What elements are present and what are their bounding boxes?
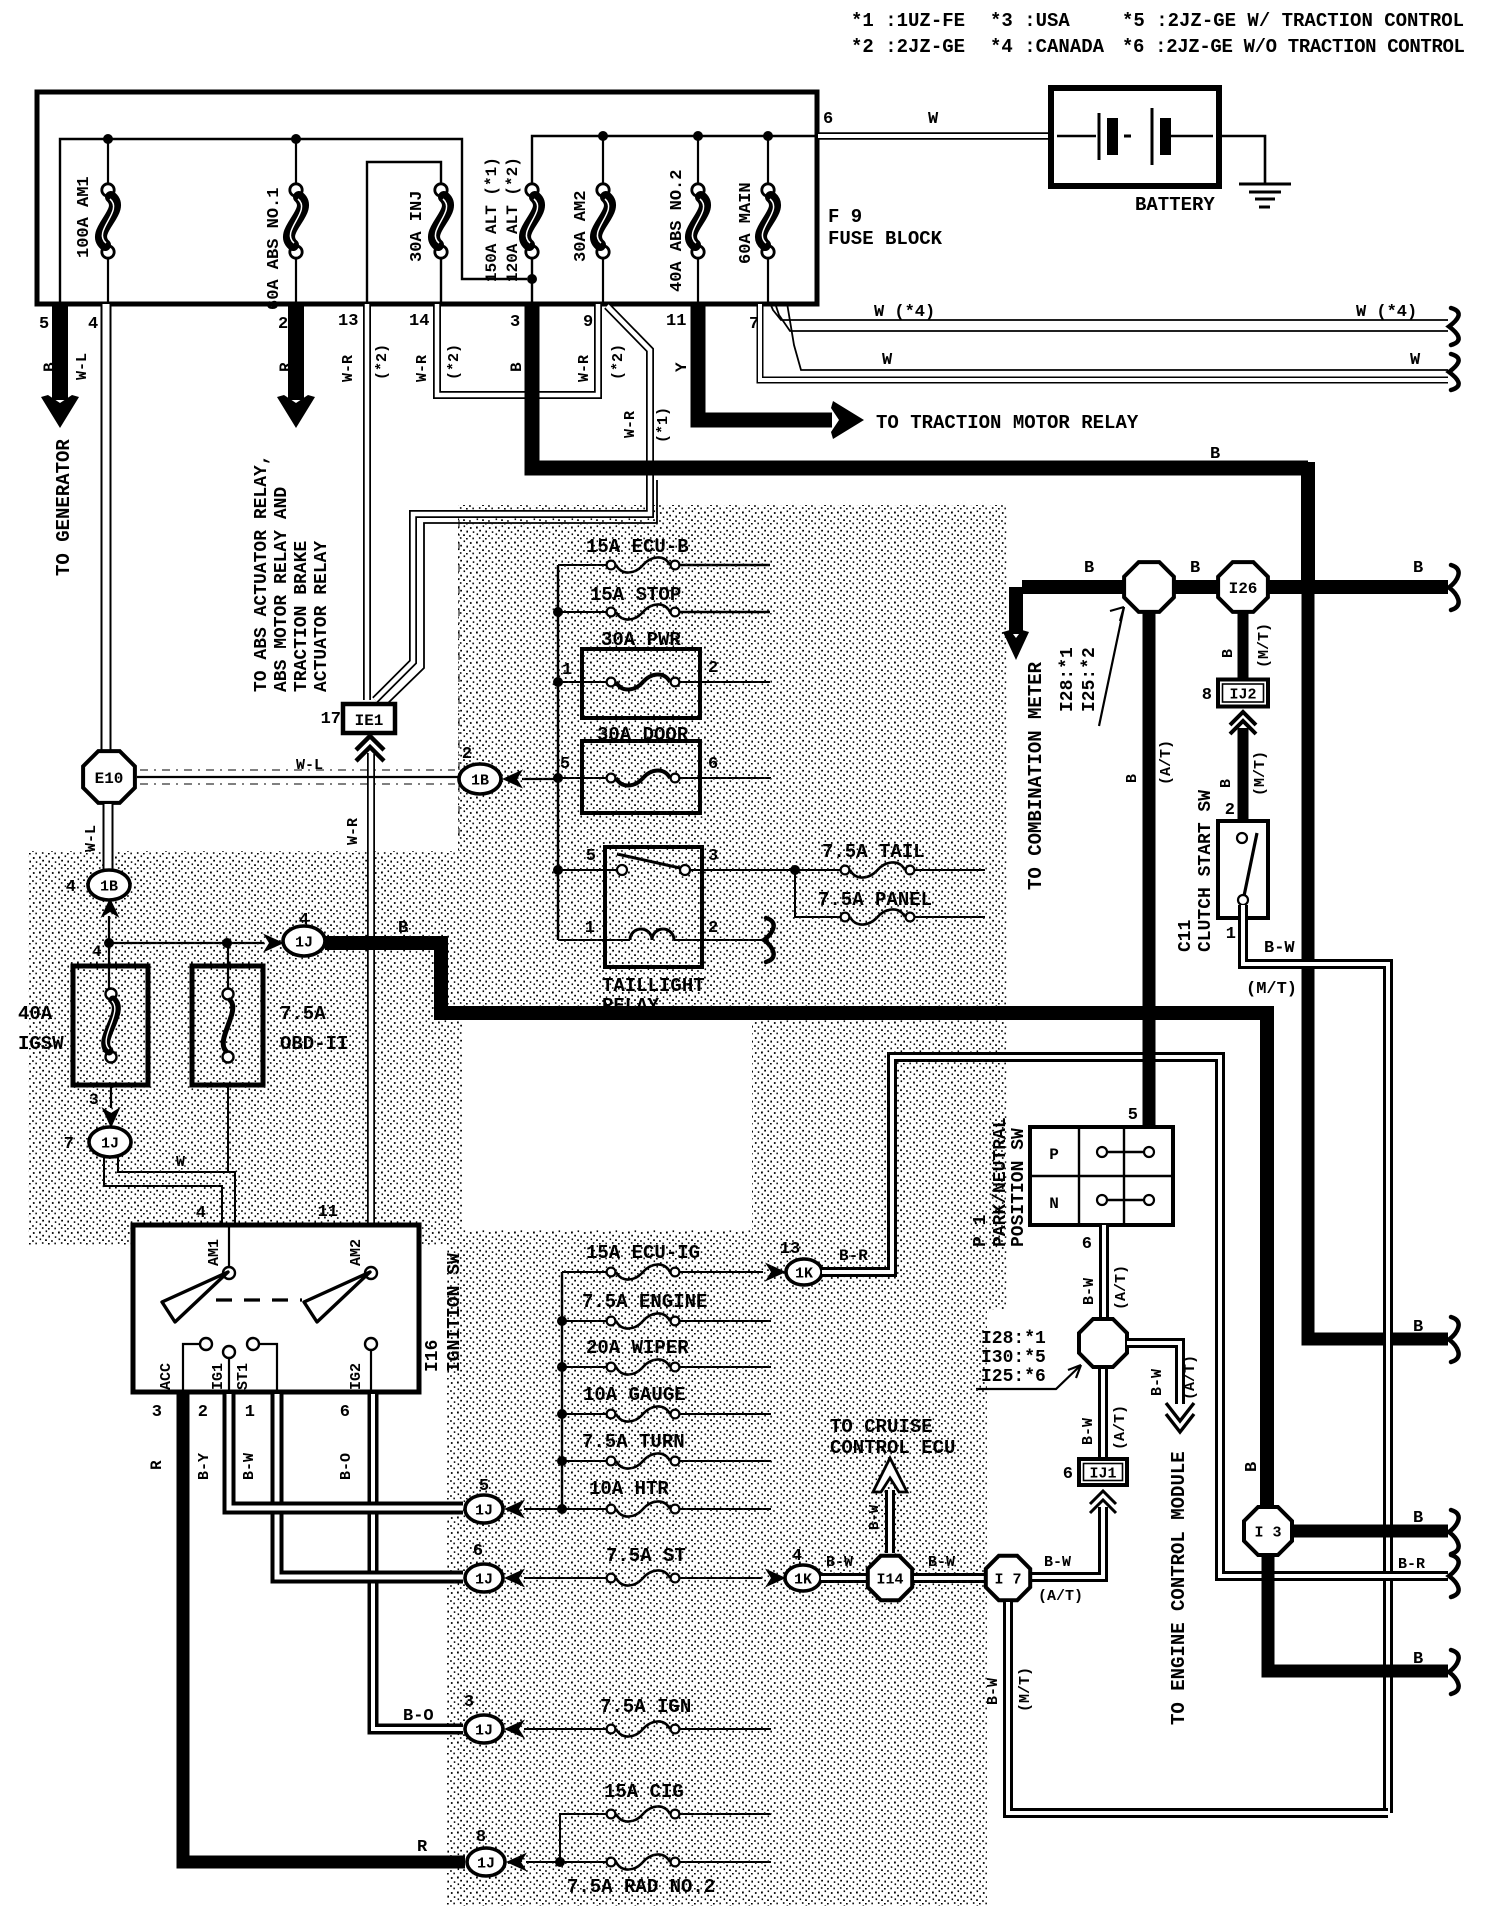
- svg-text:5: 5: [479, 1477, 489, 1496]
- svg-text:CONTROL ECU: CONTROL ECU: [830, 1437, 955, 1459]
- svg-text:I 3: I 3: [1254, 1524, 1281, 1541]
- svg-text:6: 6: [823, 110, 833, 129]
- svg-text:B-O: B-O: [338, 1453, 355, 1480]
- wire B-W A/T from octagon right to down arrow: [1127, 1343, 1180, 1404]
- svg-text:B: B: [41, 362, 59, 372]
- svg-text:POSITION SW: POSITION SW: [1009, 1128, 1029, 1247]
- octagon junction I28/I30/I25: [1079, 1319, 1127, 1367]
- svg-text:(*1): (*1): [655, 407, 672, 443]
- svg-text:CLUTCH START SW: CLUTCH START SW: [1196, 790, 1216, 952]
- svg-text:B-W: B-W: [1044, 1554, 1071, 1571]
- thick wire B below I3 to right edge: [1268, 1557, 1448, 1671]
- svg-text:10A HTR: 10A HTR: [589, 1478, 669, 1500]
- svg-text:W-R: W-R: [345, 818, 362, 845]
- fuse 7.5A OBD-II box: [227, 943, 229, 994]
- svg-text:TO ABS ACTUATOR RELAY,: TO ABS ACTUATOR RELAY,: [252, 454, 272, 692]
- svg-text:(M/T): (M/T): [1017, 1667, 1034, 1712]
- svg-text:I 7: I 7: [994, 1571, 1021, 1588]
- stipple region (IGSW / OBD fuses): [28, 851, 462, 1245]
- svg-text:4: 4: [92, 943, 102, 961]
- svg-text:8: 8: [1202, 686, 1212, 705]
- svg-text:3: 3: [708, 847, 718, 866]
- svg-text:15A ECU-B: 15A ECU-B: [586, 536, 689, 558]
- svg-text:W: W: [176, 1154, 185, 1171]
- pin 3 thick wire B down and right: [532, 304, 1308, 468]
- bus wire left segment: [60, 139, 527, 302]
- svg-text:IJ1: IJ1: [1089, 1466, 1116, 1483]
- svg-text:1: 1: [562, 661, 572, 680]
- wire W-R from IE1 down to ignition switch AM2: [367, 753, 375, 1224]
- fuse 60A MAIN: [767, 136, 769, 186]
- svg-text:(M/T): (M/T): [1256, 623, 1273, 668]
- svg-text:17: 17: [321, 710, 341, 729]
- wire B-W from ST1 pin1 to 1J pin 6: [277, 1394, 463, 1577]
- svg-text:IG1: IG1: [210, 1363, 227, 1390]
- svg-text:RELAY: RELAY: [602, 995, 660, 1017]
- svg-text:3: 3: [152, 1403, 162, 1422]
- svg-text:6: 6: [473, 1542, 483, 1561]
- svg-text:1J: 1J: [295, 934, 313, 951]
- svg-text:E10: E10: [95, 770, 124, 788]
- svg-text:(A/T): (A/T): [1112, 1405, 1129, 1450]
- svg-text:W-R: W-R: [622, 411, 639, 438]
- wire B-W from I7 up into IJ1: [1032, 1507, 1103, 1577]
- svg-text:1K: 1K: [794, 1571, 812, 1588]
- svg-text:W-L: W-L: [74, 353, 91, 380]
- svg-text:W (*4): W (*4): [874, 303, 935, 322]
- svg-text:60A ABS NO.1: 60A ABS NO.1: [265, 188, 284, 310]
- svg-text:6: 6: [1082, 1235, 1092, 1254]
- svg-text:7.5A: 7.5A: [280, 1003, 326, 1025]
- svg-text:2: 2: [708, 659, 718, 678]
- svg-text:3: 3: [464, 1693, 474, 1712]
- svg-text:FUSE BLOCK: FUSE BLOCK: [828, 228, 943, 250]
- wire W (*4) upper pair to right edge: [770, 303, 1448, 320]
- svg-text:W-R: W-R: [576, 355, 593, 382]
- octagon I14: [868, 1556, 912, 1600]
- svg-text:5: 5: [1128, 1106, 1138, 1125]
- svg-text:R: R: [277, 362, 295, 372]
- svg-text:4: 4: [88, 315, 98, 334]
- svg-text:13: 13: [338, 312, 358, 331]
- P row contact: [1097, 1147, 1107, 1157]
- wiper arm AM1: [162, 1272, 228, 1322]
- wire B-W 1K to I14: [821, 1573, 868, 1583]
- svg-text:B: B: [508, 362, 526, 372]
- battery symbol: [1057, 135, 1096, 138]
- svg-text:IGNITION SW: IGNITION SW: [445, 1253, 465, 1372]
- wire W fuse block to battery: [818, 132, 1051, 140]
- svg-text:1: 1: [245, 1403, 255, 1422]
- stipple region (ECU-B fuse group): [458, 505, 1008, 1012]
- svg-text:BATTERY: BATTERY: [1135, 194, 1215, 216]
- wire B-Y from IG1 pin2 to 1J pin 5: [229, 1394, 463, 1508]
- svg-text:ST1: ST1: [235, 1363, 252, 1390]
- svg-text:(A/T): (A/T): [1113, 1265, 1130, 1310]
- svg-text:7.5A TURN: 7.5A TURN: [582, 1431, 685, 1453]
- wire below OBD fuse: [227, 1085, 229, 1172]
- wire to 1J pin 4: [104, 938, 114, 948]
- svg-text:R: R: [417, 1838, 428, 1857]
- octagon I7: [986, 1556, 1030, 1600]
- brace wire ends W: [1449, 308, 1459, 345]
- svg-text:B-W: B-W: [928, 1554, 955, 1571]
- svg-text:1J: 1J: [475, 1722, 493, 1739]
- svg-text:B: B: [1084, 559, 1094, 578]
- svg-text:AM1: AM1: [206, 1239, 223, 1266]
- svg-text:TRACTION BRAKE: TRACTION BRAKE: [292, 541, 312, 692]
- svg-text:W: W: [1410, 351, 1421, 370]
- svg-text:IG2: IG2: [348, 1363, 365, 1390]
- svg-text:W-R: W-R: [340, 355, 357, 382]
- svg-text:1J: 1J: [101, 1135, 119, 1152]
- svg-text:TO TRACTION MOTOR RELAY: TO TRACTION MOTOR RELAY: [876, 412, 1139, 434]
- svg-text:4: 4: [196, 1204, 206, 1223]
- battery box: [1051, 88, 1219, 186]
- pin 11 thick wire Y to traction relay arrow: [698, 304, 832, 420]
- thick wire B from 1J to lower-right: [325, 943, 1267, 1507]
- svg-text:P: P: [1049, 1146, 1059, 1164]
- wire B-R from 1K up and over to right edge: [822, 1057, 1448, 1576]
- svg-text:*4 :CANADA: *4 :CANADA: [990, 36, 1105, 58]
- svg-text:4: 4: [66, 878, 76, 897]
- svg-text:ABS MOTOR RELAY AND: ABS MOTOR RELAY AND: [272, 487, 292, 692]
- fuse block F9 outline: [37, 92, 817, 304]
- svg-text:B: B: [1413, 1318, 1423, 1337]
- svg-text:(*2): (*2): [374, 344, 391, 380]
- svg-text:R: R: [148, 1460, 166, 1470]
- svg-text:5: 5: [586, 847, 596, 866]
- svg-text:B: B: [1190, 559, 1200, 578]
- svg-text:6: 6: [340, 1403, 350, 1422]
- svg-text:B: B: [1218, 779, 1235, 788]
- svg-text:I28:*1: I28:*1: [981, 1329, 1046, 1349]
- svg-text:*5 :2JZ-GE W/ TRACTION CONTROL: *5 :2JZ-GE W/ TRACTION CONTROL: [1122, 10, 1464, 32]
- svg-text:60A MAIN: 60A MAIN: [737, 182, 756, 264]
- svg-text:B: B: [1413, 1650, 1423, 1669]
- fuse 30A INJ loop: [367, 162, 441, 302]
- svg-text:30A AM2: 30A AM2: [572, 191, 591, 262]
- svg-text:1B: 1B: [471, 772, 489, 789]
- taillight relay box: [605, 847, 702, 967]
- fuse 30A AM2: [602, 136, 604, 186]
- octagon I3: [1244, 1507, 1292, 1555]
- svg-text:W-L: W-L: [83, 825, 100, 852]
- thick wire B right segment to combination meter corner: [1301, 462, 1315, 587]
- svg-text:AM2: AM2: [348, 1239, 365, 1266]
- svg-text:*3 :USA: *3 :USA: [990, 10, 1070, 32]
- svg-text:PARK/NEUTRAL: PARK/NEUTRAL: [991, 1117, 1011, 1247]
- wire W from 1J7 to ignition switch AM1: [104, 1157, 222, 1226]
- svg-text:B-Y: B-Y: [196, 1453, 213, 1480]
- svg-text:F 9: F 9: [828, 206, 862, 228]
- ground symbol: [1239, 183, 1291, 186]
- svg-text:*1 :1UZ-FE: *1 :1UZ-FE: [851, 10, 965, 32]
- ignition switch I16 box: [133, 1225, 419, 1392]
- svg-text:*6 :2JZ-GE W/O TRACTION CONTRO: *6 :2JZ-GE W/O TRACTION CONTROL: [1122, 36, 1465, 58]
- svg-text:1J: 1J: [477, 1855, 495, 1872]
- stipple region (lower fuse group): [447, 1230, 987, 1906]
- svg-text:W: W: [882, 351, 893, 370]
- svg-text:I26: I26: [1229, 580, 1258, 598]
- thick wire B from I3 to right edge: [1294, 1525, 1448, 1538]
- svg-text:I25:*6: I25:*6: [981, 1367, 1046, 1387]
- svg-text:TO ENGINE CONTROL MODULE: TO ENGINE CONTROL MODULE: [1168, 1451, 1190, 1725]
- wire B M/T from IJ2 to clutch switch: [1238, 728, 1249, 821]
- svg-text:1B: 1B: [100, 878, 118, 895]
- svg-text:W (*4): W (*4): [1356, 303, 1417, 322]
- svg-text:OBD-II: OBD-II: [280, 1033, 348, 1055]
- svg-text:(A/T): (A/T): [1038, 1588, 1083, 1605]
- octagon junction I28/I25: [1124, 562, 1174, 612]
- svg-text:15A STOP: 15A STOP: [590, 584, 681, 606]
- svg-text:TO GENERATOR: TO GENERATOR: [53, 439, 75, 576]
- fuse 40A IGSW box: [73, 966, 148, 1085]
- svg-text:W-R: W-R: [414, 355, 431, 382]
- svg-text:2: 2: [278, 315, 288, 334]
- svg-text:B-R: B-R: [1398, 1556, 1425, 1573]
- svg-text:TO CRUISE: TO CRUISE: [830, 1416, 933, 1438]
- svg-text:B: B: [1210, 445, 1220, 464]
- svg-text:B: B: [1413, 1509, 1423, 1528]
- svg-text:30A INJ: 30A INJ: [408, 191, 427, 262]
- wire W-R (*1) from pin 9 to IE1: [375, 306, 650, 700]
- octagon I26: [1218, 562, 1268, 612]
- svg-text:IGSW: IGSW: [18, 1033, 64, 1055]
- pin 13 wire W-R pair down to IE1: [363, 304, 371, 700]
- svg-text:B: B: [398, 919, 408, 938]
- svg-text:B-W: B-W: [1081, 1278, 1098, 1305]
- svg-text:B-W: B-W: [826, 1554, 853, 1571]
- svg-text:B-R: B-R: [839, 1247, 868, 1265]
- lower fuse bus: [561, 1272, 563, 1509]
- svg-text:120A ALT (*2): 120A ALT (*2): [504, 157, 522, 282]
- svg-text:7.5A ENGINE: 7.5A ENGINE: [582, 1291, 707, 1313]
- svg-text:1J: 1J: [475, 1571, 493, 1588]
- wire battery to ground: [1219, 136, 1265, 184]
- wire R from ACC pin3 to 1J pin 8: [183, 1394, 465, 1862]
- svg-text:15A CIG: 15A CIG: [604, 1781, 684, 1803]
- svg-text:B: B: [1243, 1462, 1262, 1472]
- svg-text:2: 2: [198, 1403, 208, 1422]
- junction dots on bus: [103, 134, 113, 144]
- stipple region (right of park/neutral switch): [752, 1013, 1008, 1310]
- svg-text:8: 8: [476, 1828, 486, 1847]
- dashed link between wipers: [216, 1298, 302, 1301]
- svg-text:10A GAUGE: 10A GAUGE: [583, 1384, 686, 1406]
- svg-text:W: W: [928, 110, 939, 129]
- svg-text:TAILLIGHT: TAILLIGHT: [602, 975, 705, 997]
- wiper arm AM2: [304, 1272, 370, 1322]
- wire B-W A/T octagon down to IJ1: [1098, 1369, 1108, 1461]
- svg-text:ACC: ACC: [158, 1363, 175, 1390]
- arrow up into 1B: [101, 898, 120, 918]
- chevron under IE1: [356, 736, 384, 750]
- svg-text:2: 2: [1225, 801, 1235, 820]
- svg-text:11: 11: [666, 312, 686, 331]
- svg-text:N: N: [1049, 1195, 1059, 1213]
- thick wire B A/T from octagon to P/N switch pin 5: [1143, 611, 1156, 1127]
- svg-text:I30:*5: I30:*5: [981, 1348, 1046, 1368]
- middle fuse bus: [557, 565, 559, 940]
- svg-text:1: 1: [1226, 925, 1236, 944]
- svg-text:B: B: [1413, 559, 1423, 578]
- svg-text:B-W: B-W: [241, 1453, 258, 1480]
- pin 14 to pin 9 loop wire W-R: [437, 304, 598, 395]
- svg-text:(M/T): (M/T): [1246, 980, 1297, 999]
- svg-text:2: 2: [708, 919, 718, 938]
- wire below IGSW to 1J pin 7: [110, 1085, 112, 1108]
- octagon E10: [103, 750, 114, 804]
- svg-text:5: 5: [39, 315, 49, 334]
- svg-text:C11: C11: [1176, 919, 1196, 952]
- svg-text:I25:*2: I25:*2: [1080, 647, 1100, 712]
- svg-text:7.5A PANEL: 7.5A PANEL: [818, 889, 932, 911]
- svg-text:1K: 1K: [795, 1265, 813, 1282]
- N row contact: [1097, 1195, 1107, 1205]
- svg-text:(A/T): (A/T): [1182, 1355, 1199, 1400]
- svg-text:150A ALT (*1): 150A ALT (*1): [483, 157, 501, 282]
- svg-text:(*2): (*2): [446, 344, 463, 380]
- svg-text:B-O: B-O: [403, 1707, 434, 1726]
- svg-text:14: 14: [409, 312, 429, 331]
- svg-text:B-W: B-W: [1080, 1418, 1097, 1445]
- svg-text:B: B: [1124, 774, 1141, 783]
- wire W-L E10 down to 1B: [103, 804, 114, 869]
- svg-text:B-W: B-W: [1149, 1369, 1166, 1396]
- svg-text:I14: I14: [876, 1571, 903, 1588]
- fuse 40A ABS NO.2: [697, 136, 699, 186]
- svg-text:TO COMBINATION METER: TO COMBINATION METER: [1025, 661, 1047, 890]
- svg-text:7.5A TAIL: 7.5A TAIL: [822, 841, 925, 863]
- wire to 7.5A TAIL fuse: [790, 865, 800, 875]
- svg-text:15A ECU-IG: 15A ECU-IG: [586, 1242, 700, 1264]
- pin 7 wire W to right edge: [760, 304, 1448, 380]
- svg-text:3: 3: [89, 1091, 99, 1109]
- svg-text:4: 4: [792, 1547, 802, 1566]
- svg-text:IE1: IE1: [355, 712, 384, 730]
- svg-text:6: 6: [1063, 1465, 1073, 1484]
- svg-text:1J: 1J: [475, 1502, 493, 1519]
- svg-text:20A WIPER: 20A WIPER: [586, 1337, 689, 1359]
- fuse 100A AM1: [107, 139, 109, 186]
- wire B M/T from I26 to IJ2: [1238, 611, 1249, 681]
- svg-text:(*2): (*2): [610, 344, 627, 380]
- svg-text:6: 6: [708, 755, 718, 774]
- fuse 60A ABS NO.1: [295, 139, 297, 186]
- wire B-W M/T loop from I7 down: [1008, 1602, 1388, 1813]
- svg-text:1: 1: [585, 919, 595, 938]
- svg-text:I16: I16: [423, 1340, 443, 1372]
- svg-text:100A AM1: 100A AM1: [75, 176, 94, 258]
- svg-text:5: 5: [560, 755, 570, 774]
- svg-text:*2 :2JZ-GE: *2 :2JZ-GE: [851, 36, 965, 58]
- svg-text:IJ2: IJ2: [1229, 687, 1256, 704]
- svg-text:Y: Y: [673, 362, 691, 372]
- wire B-O from IG2 pin6 to 1J pin 3: [373, 1394, 463, 1729]
- svg-text:ACTUATOR RELAY: ACTUATOR RELAY: [312, 541, 332, 692]
- thick vertical B at x1310 lower: [1308, 587, 1448, 1339]
- svg-text:(M/T): (M/T): [1252, 751, 1269, 796]
- svg-text:(A/T): (A/T): [1158, 740, 1175, 785]
- svg-text:3: 3: [510, 313, 520, 332]
- svg-text:B: B: [1220, 649, 1237, 658]
- svg-text:7.5A ST: 7.5A ST: [606, 1545, 686, 1567]
- svg-text:9: 9: [583, 313, 593, 332]
- svg-text:7: 7: [64, 1135, 74, 1154]
- svg-text:B-W: B-W: [1264, 939, 1295, 958]
- bus wire right segment: [532, 136, 816, 186]
- svg-text:B-W: B-W: [985, 1678, 1002, 1705]
- svg-text:40A ABS NO.2: 40A ABS NO.2: [668, 170, 687, 292]
- svg-text:13: 13: [780, 1240, 800, 1259]
- fuse 15A ECU-IG: [562, 1271, 606, 1273]
- wire W-L E10 to 1B: [137, 776, 458, 778]
- fuse 150A ALT: [531, 252, 533, 302]
- svg-text:7.5A IGN: 7.5A IGN: [600, 1696, 691, 1718]
- svg-text:40A: 40A: [18, 1003, 53, 1025]
- wire B-W I14 to I7: [914, 1573, 984, 1583]
- svg-text:2: 2: [462, 745, 472, 764]
- svg-text:I28:*1: I28:*1: [1058, 647, 1078, 712]
- svg-text:W-L: W-L: [296, 757, 323, 774]
- svg-text:B-W: B-W: [867, 1504, 883, 1530]
- svg-text:7.5A RAD NO.2: 7.5A RAD NO.2: [567, 1876, 715, 1898]
- svg-text:11: 11: [318, 1203, 338, 1222]
- svg-text:P 1: P 1: [971, 1214, 991, 1247]
